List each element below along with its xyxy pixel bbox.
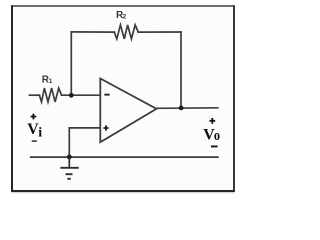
source Vi minus sign [32, 140, 37, 142]
source Vi plus sign [31, 114, 37, 120]
wire top rail right [138, 31, 181, 33]
wire op-amp noninverting input [69, 127, 100, 129]
node A junction (inverting input) [69, 93, 74, 98]
ground [60, 157, 78, 179]
svg-text:o: o [214, 127, 220, 143]
wire R1 to op-amp inverting input [62, 94, 101, 96]
node output junction [179, 106, 184, 111]
wire top rail left [71, 31, 114, 33]
op-amp inverting pin minus sign [104, 94, 109, 96]
node ground junction [67, 155, 72, 160]
wire noninverting input down to ground rail [68, 128, 70, 157]
source Vo minus sign [211, 146, 218, 148]
resistor R1 [39, 88, 61, 102]
wire bottom rail [31, 156, 218, 158]
wire output [157, 107, 218, 110]
wire feedback vertical [70, 32, 72, 95]
op-amp noninverting pin plus sign [103, 125, 108, 130]
wire feedback down to output [180, 32, 182, 108]
op-amp U1 [100, 79, 156, 143]
svg-text:i: i [38, 126, 42, 141]
wire input lead [29, 94, 39, 96]
resistor R2 [114, 25, 138, 39]
source Vo plus sign [210, 118, 216, 124]
